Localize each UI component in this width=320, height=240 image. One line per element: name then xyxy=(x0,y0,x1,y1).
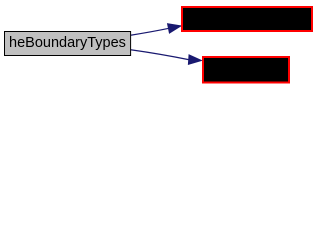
node: bottom-right red box (truncated node, black fill) xyxy=(203,57,289,83)
node: top-right red box (truncated node, black fill) xyxy=(182,7,312,31)
node heBoundaryTypes (grey box) xyxy=(5,32,131,56)
svg-text:heBoundaryTypes: heBoundaryTypes xyxy=(9,35,126,51)
arrowhead of bottom edge xyxy=(188,55,202,65)
wire: edge from heBoundaryTypes to bottom node xyxy=(131,50,190,60)
arrowhead of top edge xyxy=(167,24,181,34)
wire: edge from heBoundaryTypes to top node xyxy=(131,28,169,35)
